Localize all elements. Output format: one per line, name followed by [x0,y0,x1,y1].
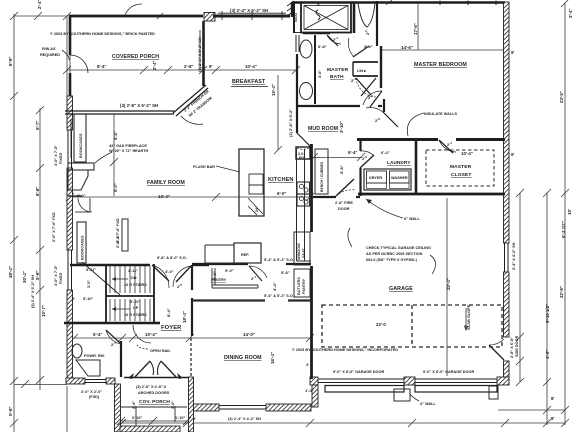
porch arch sill [124,377,188,379]
svg-text:(2) 2'-6" X 5'-2" SH: (2) 2'-6" X 5'-2" SH [197,37,202,72]
svg-text:FD: FD [299,156,304,160]
svg-text:5'-8": 5'-8" [115,234,120,243]
svg-text:1'-0": 1'-0" [305,388,314,393]
garage door panels [325,386,404,393]
left porch dim line [66,17,68,112]
stairs left wall [105,264,107,322]
WC wall right [376,1,378,46]
svg-text:15'-4": 15'-4" [271,84,276,96]
porch top dim ticks [157,13,163,19]
svg-text:5'-8": 5'-8" [281,270,290,275]
foyer dim row y338 [74,337,310,339]
svg-text:8': 8' [551,416,555,421]
vanity divider wall [314,35,316,104]
bottom ticks [118,419,126,427]
svg-text:6'-4": 6'-4" [381,150,390,155]
svg-text:14'-0": 14'-0" [243,332,255,337]
svg-text:17'-6": 17'-6" [413,23,418,35]
svg-text:(2) 2'-4" X 5'-2" SH: (2) 2'-4" X 5'-2" SH [31,275,35,308]
top jog wall [291,2,293,17]
svg-text:FIXED: FIXED [59,153,63,164]
svg-text:SIDE DOOR: SIDE DOOR [515,335,519,357]
svg-text:FAMILY ROOM: FAMILY ROOM [147,180,185,186]
powder door [106,330,120,343]
svg-text:WINDOW: WINDOW [297,243,301,260]
hall door below [383,112,398,127]
stair rail diagonal [82,262,120,295]
svg-text:10': 10' [567,209,572,215]
svg-text:5'-10": 5'-10" [130,300,141,304]
right dim line mid [546,193,548,425]
svg-text:6'-0": 6'-0" [277,191,286,196]
foyer right wall [191,265,193,290]
svg-text:8': 8' [551,396,555,401]
stairs bottom wall [64,322,160,324]
svg-text:2'-8" X 6'-8": 2'-8" X 6'-8" [510,337,514,358]
svg-text:8'-4": 8'-4" [166,308,171,317]
dining left wall [189,377,194,432]
svg-text:DOOR: DOOR [338,207,350,211]
svg-text:MASTER: MASTER [450,164,472,170]
svg-text:3'-6": 3'-6" [318,70,322,78]
svg-text:1'-10": 1'-10" [175,416,186,420]
svg-text:BOOKCASES: BOOKCASES [81,235,85,260]
svg-text:2'-0" X 7'-0" FXD: 2'-0" X 7'-0" FXD [52,212,56,242]
garage west wall [310,144,313,232]
mud hall dim line [313,157,362,159]
fireplace [68,163,94,170]
svg-text:18'-4": 18'-4" [182,311,187,323]
kitchen counter [296,149,298,261]
svg-text:9': 9' [511,50,515,55]
svg-text:BOOKCASES: BOOKCASES [79,133,83,158]
svg-text:8'-8": 8'-8" [35,187,40,196]
svg-text:INSULATE WALLS: INSULATE WALLS [424,112,458,116]
bottom right dim line [498,409,565,411]
svg-text:10'-7": 10'-7" [41,305,46,317]
svg-text:32'-8": 32'-8" [559,286,564,298]
svg-text:9': 9' [72,297,75,301]
left wall windows [67,130,69,168]
svg-text:16'-4": 16'-4" [270,352,275,364]
svg-text:16 R STAIRS: 16 R STAIRS [124,283,147,287]
svg-text:5'-4" & 5'-2" S.O.: 5'-4" & 5'-2" S.O. [264,258,294,262]
svg-text:DINING ROOM: DINING ROOM [224,355,262,361]
closet shelves dashed [426,150,494,186]
svg-text:(2) 2'-8" X 5'-2": (2) 2'-8" X 5'-2" [288,109,293,137]
svg-text:14'-6": 14'-6" [401,45,413,50]
shower [301,3,351,33]
stairs mid divider [106,295,154,297]
svg-text:PANTRY: PANTRY [211,278,227,282]
kitchen island [239,149,264,216]
svg-text:GARAGE: GARAGE [389,286,413,292]
top exterior wall [292,1,505,4]
svg-text:4" WALL: 4" WALL [420,402,436,406]
bedroom west wall [380,46,382,88]
dryer washer [364,169,411,190]
svg-text:2'-4": 2'-4" [152,61,157,70]
range [297,182,310,194]
svg-text:5'-8": 5'-8" [35,271,40,280]
family sw door arc [78,198,92,212]
svg-text:3'-10": 3'-10" [339,121,344,133]
svg-text:© 2003 BY SOUTHERN HOME DESIGN: © 2003 BY SOUTHERN HOME DESIGNS," BRICK … [50,32,155,36]
bottom dim line [115,422,565,424]
WC arc shape [358,3,375,27]
svg-text:PANTRY: PANTRY [302,278,306,294]
svg-text:POWR. RM.: POWR. RM. [84,354,105,358]
svg-text:3'-0": 3'-0" [171,401,175,409]
svg-text:FIXED: FIXED [59,273,63,284]
svg-text:4'-0": 4'-0" [165,269,174,274]
porch left wall [69,17,72,55]
garage bottom wall (hatched) [310,377,318,385]
svg-text:2'-8" FIRE: 2'-8" FIRE [335,201,353,205]
foyer arch arc [133,325,151,343]
wall right of shower [353,2,356,33]
svg-text:38'-4": 38'-4" [8,266,13,278]
svg-text:4'-2": 4'-2" [545,350,550,359]
bookcases [74,114,86,162]
mud door [297,133,311,147]
svg-text:8'-9": 8'-9" [8,57,13,66]
svg-text:5'-7": 5'-7" [35,121,40,130]
family dim line [113,114,115,196]
toilet master bath [300,40,312,58]
powder bottom wall [66,378,85,384]
pantry shelves [211,268,213,288]
breakfast window wall [213,15,290,18]
svg-text:CHECK TYPICAL GARAGE CEILING: CHECK TYPICAL GARAGE CEILING [366,246,431,250]
svg-text:9'-0" X 8'-0" GARAGE DOOR: 9'-0" X 8'-0" GARAGE DOOR [423,370,474,374]
porch door arc [70,55,88,73]
svg-text:602.6 (5/8" TYPE X GYP.BD.): 602.6 (5/8" TYPE X GYP.BD.) [366,258,418,262]
svg-text:6" WALL: 6" WALL [404,217,420,221]
svg-text:COVERED PORCH: COVERED PORCH [112,54,159,60]
laundry door [360,155,374,168]
hall wall stub [383,99,385,112]
mud hall south wall / fire wall [313,196,336,198]
bath bottom wall [296,105,360,107]
stairs right wall [153,264,155,322]
svg-text:AS PER NCRBC 2009 SECTION: AS PER NCRBC 2009 SECTION [366,252,423,256]
svg-text:MASTER BEDROOM: MASTER BEDROOM [414,62,467,68]
svg-text:WASHER: WASHER [391,176,408,180]
laundry/bedroom wall [357,138,438,141]
svg-text:5'-4": 5'-4" [93,332,102,337]
garage side step [489,386,498,399]
svg-text:3'-5": 3'-5" [87,280,91,288]
svg-text:KITCHEN: KITCHEN [268,177,294,183]
svg-text:2'-8": 2'-8" [184,64,193,69]
right dim line inner [519,193,521,382]
porch top wall [69,15,203,18]
garage ceiling dashed [322,305,502,347]
cov porch left pier [115,384,121,432]
LIN closet [353,61,378,63]
svg-text:6'-8": 6'-8" [318,44,327,49]
svg-text:3'-4": 3'-4" [364,44,373,49]
svg-text:3'-0" X 7'-0": 3'-0" X 7'-0" [54,265,58,286]
right dim line outer [564,3,566,425]
bath door 1 [327,35,338,46]
garage v dim [446,198,448,376]
svg-text:5'-4": 5'-4" [348,150,357,155]
svg-text:REQUIRED: REQUIRED [40,53,60,57]
svg-text:22'-0: 22'-0 [376,322,386,327]
svg-text:COV. PORCH: COV. PORCH [139,399,170,405]
svg-text:4'-11": 4'-11" [128,269,138,273]
svg-text:5'-8": 5'-8" [8,407,13,416]
svg-text:5'-8": 5'-8" [113,131,118,140]
svg-text:5'-8" & 8'-0" S.O.: 5'-8" & 8'-0" S.O. [157,256,187,260]
svg-text:5'-11": 5'-11" [86,268,96,272]
svg-text:5'-4" & 5'-2" S.O.: 5'-4" & 5'-2" S.O. [264,294,294,298]
porch steps [121,406,187,408]
svg-text:(3) 2'-8" X 6'-2" SH: (3) 2'-8" X 6'-2" SH [120,103,158,108]
butler boxes [294,232,310,265]
svg-text:R/W AS: R/W AS [42,47,56,51]
garage side door [489,345,504,360]
svg-text:5'-10": 5'-10" [83,297,94,301]
right ticks [516,189,524,197]
svg-text:16 R STAIRS: 16 R STAIRS [124,313,147,317]
svg-text:DN: DN [131,276,137,280]
stair arrows [112,278,128,280]
svg-text:9'-0" X 8'-0" GARAGE DOOR: 9'-0" X 8'-0" GARAGE DOOR [333,370,384,374]
svg-text:(FXD): (FXD) [89,395,100,399]
bedroom top windows ticks [439,1,441,6]
svg-text:9': 9' [511,152,515,157]
foyer double doors [152,265,169,281]
svg-text:2'-0": 2'-0" [77,193,86,198]
svg-text:ARCHED DOORS: ARCHED DOORS [138,391,170,395]
svg-text:6'-10": 6'-10" [132,416,143,420]
svg-text:23'-5": 23'-5" [559,91,564,103]
svg-text:2'-4": 2'-4" [37,0,42,9]
svg-text:20'-4": 20'-4" [446,278,451,290]
svg-text:9'-10 1/2": 9'-10 1/2" [545,304,550,323]
breakfast v dim line [277,75,279,150]
bath west wall [296,54,298,106]
svg-text:(3) 2'-4" X 4'-2" SH: (3) 2'-4" X 4'-2" SH [228,417,261,421]
family room top wall (porch bottom) [65,110,174,112]
butler counter [205,244,234,246]
dining bottom wall (hatched) [189,404,219,411]
svg-text:8'-4": 8'-4" [97,64,106,69]
porch corner post [204,13,215,22]
laundry left wall [359,139,361,151]
shower seat [294,3,301,33]
svg-text:SEAT: SEAT [302,247,306,258]
bay vertical wall [202,21,205,86]
svg-text:13'-4": 13'-4" [158,194,170,199]
REF [234,243,261,263]
svg-text:LAUNDRY: LAUNDRY [387,160,411,165]
svg-text:UP: UP [133,306,139,310]
family/foyer wall [70,264,150,266]
svg-text:BREAKFAST: BREAKFAST [232,79,266,85]
WC door [353,46,369,57]
left exterior wall (hatched) [67,96,73,381]
svg-text:(3) 2'-8" X 6'-8"-0: (3) 2'-8" X 6'-8"-0 [136,385,166,389]
closet door [439,140,453,153]
top-left dim line [14,15,70,17]
right exterior wall (hatched) [504,2,510,243]
svg-text:SLAB SLOPE: SLAB SLOPE [466,304,471,330]
mud west wall [296,106,298,133]
kitchen-dining wall [192,299,265,301]
stair window box [122,219,128,251]
fire door [336,179,354,196]
svg-text:LIN ▸: LIN ▸ [357,69,367,73]
interior dim row y197 [70,196,310,198]
pantry door [249,266,262,281]
bay diagonal french door [173,85,206,113]
powder toilet [72,344,82,358]
left inner dim line [39,108,41,390]
svg-text:MUD ROOM: MUD ROOM [308,126,338,132]
lower bookcase [77,222,86,263]
arched double doors [134,361,150,378]
garage door sills [318,378,404,380]
kitchen south wall [192,263,248,265]
svg-text:BATH: BATH [330,74,344,80]
svg-text:5'-8": 5'-8" [339,165,344,174]
svg-text:42" GAS FIREPLACE: 42" GAS FIREPLACE [109,144,147,148]
laundry closet divider [415,140,418,194]
svg-text:MASTER: MASTER [327,67,349,73]
svg-text:30'-4": 30'-4" [22,271,27,283]
left ticks [10,12,18,20]
hall-bedroom door leaf [370,91,382,107]
kitchen top wall/closet [296,147,310,159]
svg-text:DRYER: DRYER [369,176,382,180]
left outer dim line [13,14,15,432]
svg-text:BUTLERS: BUTLERS [297,277,301,295]
svg-text:W/ 20" X 72" HEARTH: W/ 20" X 72" HEARTH [109,149,149,153]
svg-text:2'-4" X 4'-2" SH: 2'-4" X 4'-2" SH [512,242,516,270]
svg-text:2'-0" X 2'-0": 2'-0" X 2'-0" [81,390,102,394]
svg-text:(3) 2'-4" X 6'-2" SH: (3) 2'-4" X 6'-2" SH [230,8,268,13]
powder sink [76,360,100,376]
svg-text:4'-4": 4'-4" [272,282,277,291]
bath double doors [356,78,371,95]
svg-text:10'-4": 10'-4" [245,64,257,69]
svg-text:2'-4": 2'-4" [132,401,136,409]
svg-text:24": 24" [255,206,259,212]
bedroom dim lines [382,49,504,51]
toilet2 [300,83,313,100]
svg-text:REF.: REF. [241,253,249,257]
bench cubbies [315,149,328,194]
svg-text:10'-4": 10'-4" [145,332,157,337]
garage top wall [358,193,505,196]
garage entry step [394,389,410,401]
svg-text:6'-3 1/2": 6'-3 1/2" [561,221,566,238]
bottom-left short dim line [66,386,68,432]
svg-text:9': 9' [193,417,196,421]
stairs treads upper [110,266,150,321]
svg-text:9': 9' [209,64,213,69]
svg-text:© 2003 BY SOUTHERN HOME DESIGN: © 2003 BY SOUTHERN HOME DESIGNS," INCORP… [292,348,398,352]
svg-text:CLOSET: CLOSET [451,172,471,178]
powder room side wall [120,341,122,377]
svg-text:9'-0": 9'-0" [225,268,234,273]
svg-text:3'-4": 3'-4" [568,9,573,18]
svg-text:FLUSH BAR: FLUSH BAR [193,165,215,169]
svg-text:4': 4' [306,362,309,367]
interior dim row y70 [67,69,296,71]
svg-text:3'-0" X 7'-0": 3'-0" X 7'-0" [54,145,58,166]
svg-text:BENCH / CUBBIES: BENCH / CUBBIES [320,161,324,192]
svg-text:OPEN RAIL: OPEN RAIL [150,349,171,353]
svg-text:9': 9' [317,2,321,7]
svg-text:FOYER: FOYER [161,325,182,331]
svg-text:10'-4": 10'-4" [461,151,473,156]
svg-text:SEAT: SEAT [294,11,298,22]
svg-text:5'-0": 5'-0" [113,183,118,192]
